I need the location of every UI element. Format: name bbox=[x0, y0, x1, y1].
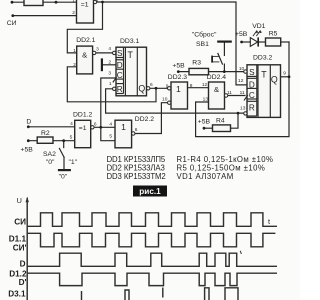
svg-text:"0": "0" bbox=[46, 159, 55, 166]
svg-text:R5: R5 bbox=[269, 30, 278, 37]
svg-text:+5В: +5В bbox=[172, 63, 185, 70]
svg-text:3: 3 bbox=[95, 0, 98, 4]
svg-text:11: 11 bbox=[240, 90, 245, 96]
svg-text:13: 13 bbox=[240, 105, 246, 111]
svg-text:t: t bbox=[268, 217, 271, 226]
svg-text:6: 6 bbox=[150, 82, 153, 88]
svg-text:1: 1 bbox=[176, 84, 181, 94]
svg-text:D: D bbox=[249, 80, 255, 89]
svg-text:R2: R2 bbox=[41, 130, 50, 137]
svg-text:+5В: +5В bbox=[198, 119, 211, 126]
svg-text:6: 6 bbox=[135, 127, 138, 133]
svg-text:D: D bbox=[117, 61, 123, 70]
svg-text:D: D bbox=[20, 260, 26, 269]
svg-text:1: 1 bbox=[121, 122, 126, 132]
svg-text:5: 5 bbox=[109, 134, 112, 140]
svg-text:R: R bbox=[117, 85, 123, 94]
svg-text:R4: R4 bbox=[216, 118, 225, 125]
svg-text:+5В: +5В bbox=[235, 31, 248, 38]
svg-text:12: 12 bbox=[202, 82, 208, 88]
svg-text:8: 8 bbox=[190, 83, 193, 89]
svg-text:=1: =1 bbox=[79, 125, 87, 132]
svg-text:4: 4 bbox=[108, 46, 111, 52]
svg-text:SB1: SB1 bbox=[196, 41, 209, 48]
svg-text:2: 2 bbox=[73, 62, 76, 68]
svg-text:D3.1: D3.1 bbox=[8, 290, 26, 299]
svg-text:=1: =1 bbox=[81, 2, 89, 9]
svg-text:2: 2 bbox=[72, 10, 75, 16]
svg-text:T: T bbox=[128, 50, 134, 60]
svg-text:СИ: СИ bbox=[14, 217, 26, 226]
svg-text:DD3.1: DD3.1 bbox=[120, 38, 139, 45]
svg-text:11: 11 bbox=[227, 90, 232, 96]
svg-text:DD2.2: DD2.2 bbox=[135, 116, 154, 123]
svg-text:VD1: VD1 bbox=[252, 23, 265, 30]
svg-text:&: & bbox=[82, 51, 87, 60]
svg-text:U: U bbox=[17, 196, 22, 205]
svg-text:12: 12 bbox=[238, 78, 244, 84]
svg-text:"Сброс": "Сброс" bbox=[192, 31, 217, 39]
svg-text:C: C bbox=[249, 91, 255, 100]
svg-text:рис.1: рис.1 bbox=[139, 187, 161, 196]
svg-text:СИ: СИ bbox=[7, 20, 17, 27]
svg-text:S: S bbox=[249, 68, 255, 77]
svg-text:Q: Q bbox=[271, 74, 278, 84]
svg-text:5: 5 bbox=[70, 135, 73, 141]
svg-text:СИ': СИ' bbox=[13, 244, 27, 253]
svg-text:"1": "1" bbox=[69, 159, 78, 166]
svg-text:R: R bbox=[249, 103, 255, 112]
svg-text:1: 1 bbox=[72, 0, 75, 4]
svg-text:DD3.2: DD3.2 bbox=[253, 54, 272, 61]
svg-text:1: 1 bbox=[109, 81, 112, 87]
svg-text:1: 1 bbox=[73, 48, 76, 54]
svg-text:9: 9 bbox=[166, 83, 169, 89]
svg-text:DD2.1: DD2.1 bbox=[76, 37, 95, 44]
svg-text:D1.1: D1.1 bbox=[9, 235, 27, 244]
svg-text:R3: R3 bbox=[192, 60, 201, 67]
svg-text:9: 9 bbox=[283, 70, 286, 76]
svg-text:10: 10 bbox=[162, 96, 168, 102]
svg-text:DD1.2: DD1.2 bbox=[73, 111, 92, 118]
svg-text:Q: Q bbox=[138, 84, 145, 94]
svg-text:VD1 АЛ307АМ: VD1 АЛ307АМ bbox=[177, 172, 234, 181]
svg-text:4: 4 bbox=[109, 122, 112, 128]
svg-text:D: D bbox=[26, 119, 31, 126]
svg-text:2: 2 bbox=[108, 60, 111, 66]
svg-text:T: T bbox=[261, 69, 267, 79]
svg-text:13: 13 bbox=[203, 97, 209, 103]
svg-text:SA2: SA2 bbox=[43, 151, 56, 158]
svg-text:+5В: +5В bbox=[21, 146, 34, 153]
svg-text:DD2.4: DD2.4 bbox=[207, 74, 226, 81]
svg-text:C: C bbox=[117, 71, 123, 80]
svg-text:DD3 КР1533ТМ2: DD3 КР1533ТМ2 bbox=[107, 172, 166, 181]
svg-text:10: 10 bbox=[239, 66, 245, 72]
svg-text:4: 4 bbox=[70, 121, 73, 127]
svg-text:"0": "0" bbox=[59, 173, 68, 180]
svg-text:D': D' bbox=[19, 278, 27, 287]
svg-text:3: 3 bbox=[108, 71, 111, 77]
svg-text:S: S bbox=[117, 49, 123, 58]
svg-text:3: 3 bbox=[96, 47, 99, 53]
svg-text:&: & bbox=[214, 85, 219, 94]
svg-text:6: 6 bbox=[94, 121, 97, 127]
svg-text:DD2.3: DD2.3 bbox=[168, 74, 187, 81]
